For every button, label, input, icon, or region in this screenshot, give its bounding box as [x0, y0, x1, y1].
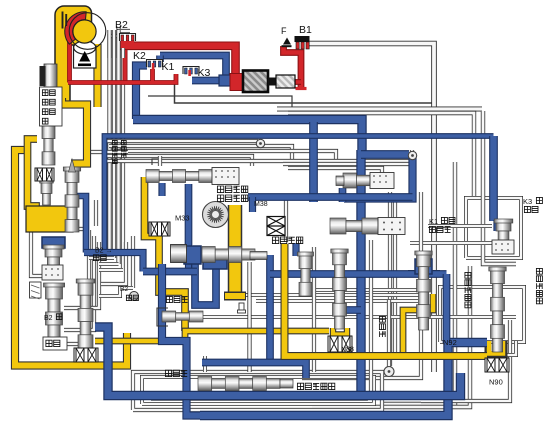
- wire w-tl-top1: [110, 31, 131, 36]
- wire blue cross line mid: [143, 268, 197, 276]
- wire w-mid-5: [104, 156, 252, 166]
- wire w-r12: [302, 192, 421, 378]
- bellows box (2-cell): [267, 217, 285, 236]
- torque converter housing (yellow): [55, 6, 92, 107]
- wire blue right valve feed: [443, 274, 451, 343]
- text 主调压阀: [272, 237, 302, 244]
- wire w-l6: [88, 150, 128, 154]
- valve N88 column: [331, 249, 348, 329]
- wire blue pump-to-left: [185, 245, 192, 272]
- pilot valve spool: [146, 170, 212, 183]
- svg-text:M38: M38: [254, 201, 268, 208]
- torque converter red crescent: [65, 12, 86, 44]
- wire w-tl-over-4: [121, 40, 125, 58]
- text 换档: [441, 217, 455, 223]
- wire w-r13: [421, 320, 510, 401]
- wire blue K3 dist drop: [489, 136, 498, 221]
- text 电磁阀: [166, 296, 187, 302]
- text 压力调节: [217, 186, 247, 193]
- spring box K3 dist: [492, 240, 514, 254]
- valve VV4: [44, 283, 65, 338]
- svg-text:B2: B2: [115, 19, 128, 31]
- shift valve B spool: [330, 218, 378, 234]
- wire blue midline: [248, 193, 413, 201]
- wire w-r18: [398, 341, 516, 355]
- svg-text:K1: K1: [162, 61, 175, 73]
- wire w-st-5: [99, 288, 133, 296]
- gear pump: [203, 202, 229, 228]
- wire blue under main valve: [195, 261, 216, 305]
- wire w-l1: [62, 230, 89, 344]
- wire yellow stair-1: [62, 98, 87, 164]
- wire yellow right-drop2: [339, 340, 346, 356]
- svg-text:K2: K2: [133, 50, 146, 62]
- wire blue line2 bottom: [200, 343, 487, 416]
- svg-text:N90: N90: [489, 378, 503, 387]
- wire blue K2 top feed: [160, 56, 226, 81]
- wire k-thin-v: [175, 75, 434, 103]
- wire blue K2 bar: [136, 66, 147, 120]
- wire w-l5: [31, 229, 42, 276]
- wire w-l8: [131, 236, 135, 288]
- valve VV5: [76, 279, 95, 348]
- wire yellow right vert: [403, 294, 433, 352]
- text vert left of n2: [465, 272, 471, 307]
- motor N under VV5: [74, 348, 98, 362]
- solenoid spool: [162, 311, 203, 322]
- valve right mid: [415, 251, 432, 330]
- wire w-r15: [242, 293, 426, 297]
- wire w-l7: [94, 200, 98, 226]
- red T under B1: [296, 87, 307, 90]
- wire red main line: [120, 46, 236, 76]
- label box V1: [40, 87, 63, 126]
- wire w-b1: [309, 44, 434, 373]
- filter housing (white): [74, 46, 97, 68]
- wire w-bot-3: [151, 393, 366, 399]
- main valve rod: [250, 252, 267, 260]
- wire w-r11: [393, 196, 397, 358]
- wire w-pilot-top: [158, 156, 162, 166]
- wire blue node down: [344, 158, 413, 199]
- junction node mid: [256, 139, 264, 147]
- filter dome: [74, 41, 96, 54]
- valve K3 dist: [494, 219, 513, 240]
- wire w-va-1: [283, 162, 412, 166]
- label box 化阀: [43, 337, 67, 350]
- wire blue thin K3 line: [105, 136, 494, 253]
- junction node right: [408, 151, 416, 159]
- wire yellow pr-valve drop: [145, 177, 186, 331]
- wire blue K2 elbow stub: [156, 56, 164, 63]
- wire red TC column: [67, 42, 72, 83]
- wire w-bot-1: [133, 372, 382, 410]
- wire w-mid-4: [114, 151, 336, 166]
- white T pin: [238, 303, 246, 313]
- shift valve A spring box: [370, 173, 394, 189]
- text vert mid: [379, 316, 385, 337]
- text v1 line2: [42, 99, 55, 105]
- converter output box: [243, 71, 268, 93]
- wire w-r7: [428, 224, 492, 228]
- wire w-tl-over-1: [107, 30, 111, 58]
- wire blue N88 to spine stub: [345, 306, 361, 314]
- valve V1 (left column): [40, 96, 56, 165]
- wire w-r14: [302, 288, 430, 292]
- text v1 line3: [42, 109, 55, 115]
- text v1 line4: [42, 118, 48, 124]
- valve B dots: [383, 222, 401, 231]
- wire w-st-4: [99, 268, 123, 272]
- text 手动阀: [165, 370, 187, 376]
- text 分: [536, 197, 542, 203]
- output coupling: [268, 78, 276, 86]
- freewheel F symbol: [283, 38, 291, 45]
- wire w-valveB-down: [369, 240, 373, 393]
- small relief box: [30, 282, 42, 299]
- wire w-n88-left-v: [312, 247, 316, 372]
- text v1 line1: [42, 90, 55, 96]
- motor M33 (XIX): [149, 222, 170, 236]
- wire blue main valve right drop: [266, 255, 274, 363]
- wire blue K3 to box: [192, 77, 228, 85]
- main regulator spool: [202, 247, 255, 263]
- wire w-r8: [410, 241, 494, 245]
- wire red to brake cyl: [294, 79, 301, 85]
- wire w-mid-3: [109, 146, 292, 164]
- wire red K1 stem: [150, 69, 155, 81]
- input shaft bars: [63, 12, 67, 29]
- svg-text:K1: K1: [429, 217, 438, 226]
- wire w-r6: [312, 266, 470, 407]
- wire blue to node: [361, 150, 409, 159]
- svg-text:F: F: [281, 26, 287, 36]
- wire yellow pump column: [228, 205, 243, 292]
- wire w-r-k3box: [466, 198, 521, 258]
- wire w-bot-2: [142, 377, 374, 404]
- torque converter yellow circle: [73, 20, 96, 43]
- wire blue spine: [356, 150, 365, 395]
- wire blue elbow down-left: [162, 264, 254, 416]
- wire w-l2: [64, 236, 94, 330]
- wire w-tl-3: [116, 26, 120, 264]
- wire w-mid-6: [104, 150, 412, 161]
- manual valve right bits: [280, 379, 293, 388]
- text k3 line vert: [121, 140, 126, 157]
- svg-text:B1: B1: [299, 24, 312, 36]
- wire w-tl-1: [107, 34, 111, 252]
- wire w-r17: [202, 315, 516, 319]
- wire red F/B1 drop: [284, 46, 302, 87]
- svg-text:K3: K3: [523, 197, 532, 206]
- wire w-l4: [31, 227, 89, 231]
- brake B1 symbol: [295, 36, 310, 49]
- wire red thin line: [68, 74, 176, 83]
- yellow N90 cup: [488, 341, 504, 355]
- wire blue main upper: [133, 120, 362, 155]
- wire w-r3: [288, 113, 474, 198]
- wire w-tl-2: [112, 30, 116, 258]
- junction node bottom: [384, 367, 394, 377]
- text 化阀: [46, 340, 60, 346]
- wire blue mid-vert: [309, 122, 318, 202]
- wire yellow stair-left: [15, 150, 127, 366]
- wire w-st-2: [89, 256, 114, 260]
- svg-text:B2: B2: [44, 315, 53, 322]
- svg-text:B2 →: B2 →: [95, 248, 113, 255]
- svg-text:K3: K3: [198, 67, 211, 79]
- text 缓冲阀: [429, 226, 450, 232]
- wire w-bot-5: [387, 300, 391, 368]
- motor N88 (XIX): [328, 336, 352, 352]
- text 梭阀b: [126, 295, 138, 300]
- wire blue V2 side: [75, 196, 86, 253]
- svg-text:N88: N88: [341, 347, 354, 354]
- valve VV3: [43, 245, 64, 266]
- wire blue manual supply: [202, 363, 306, 379]
- blue block into converter: [219, 75, 231, 86]
- valve V2: [63, 167, 80, 232]
- oil reservoir (yellow box): [26, 206, 73, 232]
- torque converter outer ring: [69, 13, 106, 50]
- wire w-va-2: [288, 168, 382, 176]
- wire w-tl-over-2: [112, 30, 116, 58]
- wire yellow TC right column: [93, 44, 101, 107]
- text 配阀: [524, 206, 538, 212]
- wire w-r1: [483, 111, 516, 264]
- clutch K3: [183, 67, 199, 75]
- wire blue line1 bottom: [95, 327, 461, 396]
- pilot valve spring box: [212, 168, 239, 185]
- output shaft cylinder: [276, 75, 295, 88]
- text 高速供油阀: [297, 383, 334, 389]
- valve V2 nozzle tip: [69, 159, 76, 172]
- wire w-l9: [101, 242, 126, 284]
- wire yellow bottom mid: [95, 331, 329, 341]
- blue cap on valve VV3: [42, 237, 65, 248]
- wire blue under valveA: [339, 188, 347, 202]
- text 滑阀2: [93, 255, 106, 261]
- clutch K1 red teeth: [152, 63, 155, 69]
- solenoid valve bracket: [157, 308, 168, 326]
- wire w-st-1: [89, 250, 110, 254]
- motor N90 (XIX): [485, 358, 509, 372]
- ball valve B2: [130, 292, 139, 301]
- valve A left bit: [336, 176, 344, 186]
- clutch K3 red teeth: [188, 70, 191, 76]
- wire blue n2 valve cap: [493, 220, 500, 231]
- pilot valve stem: [152, 159, 158, 165]
- wire yellow left-mid: [28, 139, 38, 212]
- wire blue cross line right: [270, 270, 447, 278]
- text 阀控制阀: [217, 195, 247, 202]
- valve B white cyl: [378, 218, 405, 235]
- wire w-r2: [277, 107, 482, 112]
- valve V1b lower: [40, 179, 54, 205]
- wire yellow n88 cup: [333, 328, 347, 335]
- left input cylinder: [40, 64, 58, 88]
- yellow T foot: [224, 292, 246, 301]
- wire red B2 drop: [123, 50, 128, 83]
- solenoid valve mid: [297, 252, 313, 296]
- svg-text:N92: N92: [443, 338, 457, 347]
- wire w-tl-over-3: [116, 30, 120, 58]
- blue block under spool: [203, 259, 227, 269]
- wire blue mid column stub: [292, 243, 299, 256]
- clutch B2: [120, 34, 136, 42]
- filter triangle symbol: [79, 51, 90, 62]
- main valve white cylinder: [171, 245, 187, 263]
- clutch B2 red body: [121, 41, 135, 48]
- wire w-tl-4: [121, 38, 125, 270]
- wire blue pr-valve drop: [249, 197, 256, 212]
- text vert right1: [536, 268, 542, 303]
- wire w-bot-4: [203, 356, 207, 372]
- wire w-r9: [408, 270, 440, 274]
- wire blue pump feed: [185, 184, 193, 245]
- wire w-bellows-v: [284, 198, 288, 242]
- spring box VV3: [42, 265, 63, 280]
- wire w-mid-2: [104, 139, 258, 143]
- wire w-r-n2box: [440, 287, 524, 342]
- wire blue B2 line: [84, 253, 143, 272]
- wire w-r10: [388, 192, 392, 366]
- wire yellow right-drop pair: [285, 244, 488, 356]
- blue block main valve port: [184, 246, 201, 264]
- wire w-l3: [64, 242, 99, 308]
- motor XIX left: [35, 168, 54, 181]
- svg-text:M33: M33: [175, 214, 190, 223]
- wire w-r4: [382, 162, 455, 404]
- valve N2 right: [489, 267, 506, 352]
- svg-text:B2: B2: [120, 286, 128, 293]
- wire blue pilot stub: [158, 183, 165, 196]
- wire k-thin-2: [148, 96, 292, 107]
- clutch K1/K2: [147, 60, 163, 68]
- wire w-center-v: [247, 262, 251, 372]
- text 供: [56, 314, 62, 320]
- wire w-r16: [256, 299, 418, 303]
- red block to converter box: [230, 74, 243, 91]
- shift valve A spool: [343, 173, 370, 188]
- wire w-st-3: [99, 262, 119, 266]
- blue collar valve right: [415, 259, 432, 274]
- manual valve spool: [198, 377, 280, 391]
- text vert tc: [112, 140, 117, 163]
